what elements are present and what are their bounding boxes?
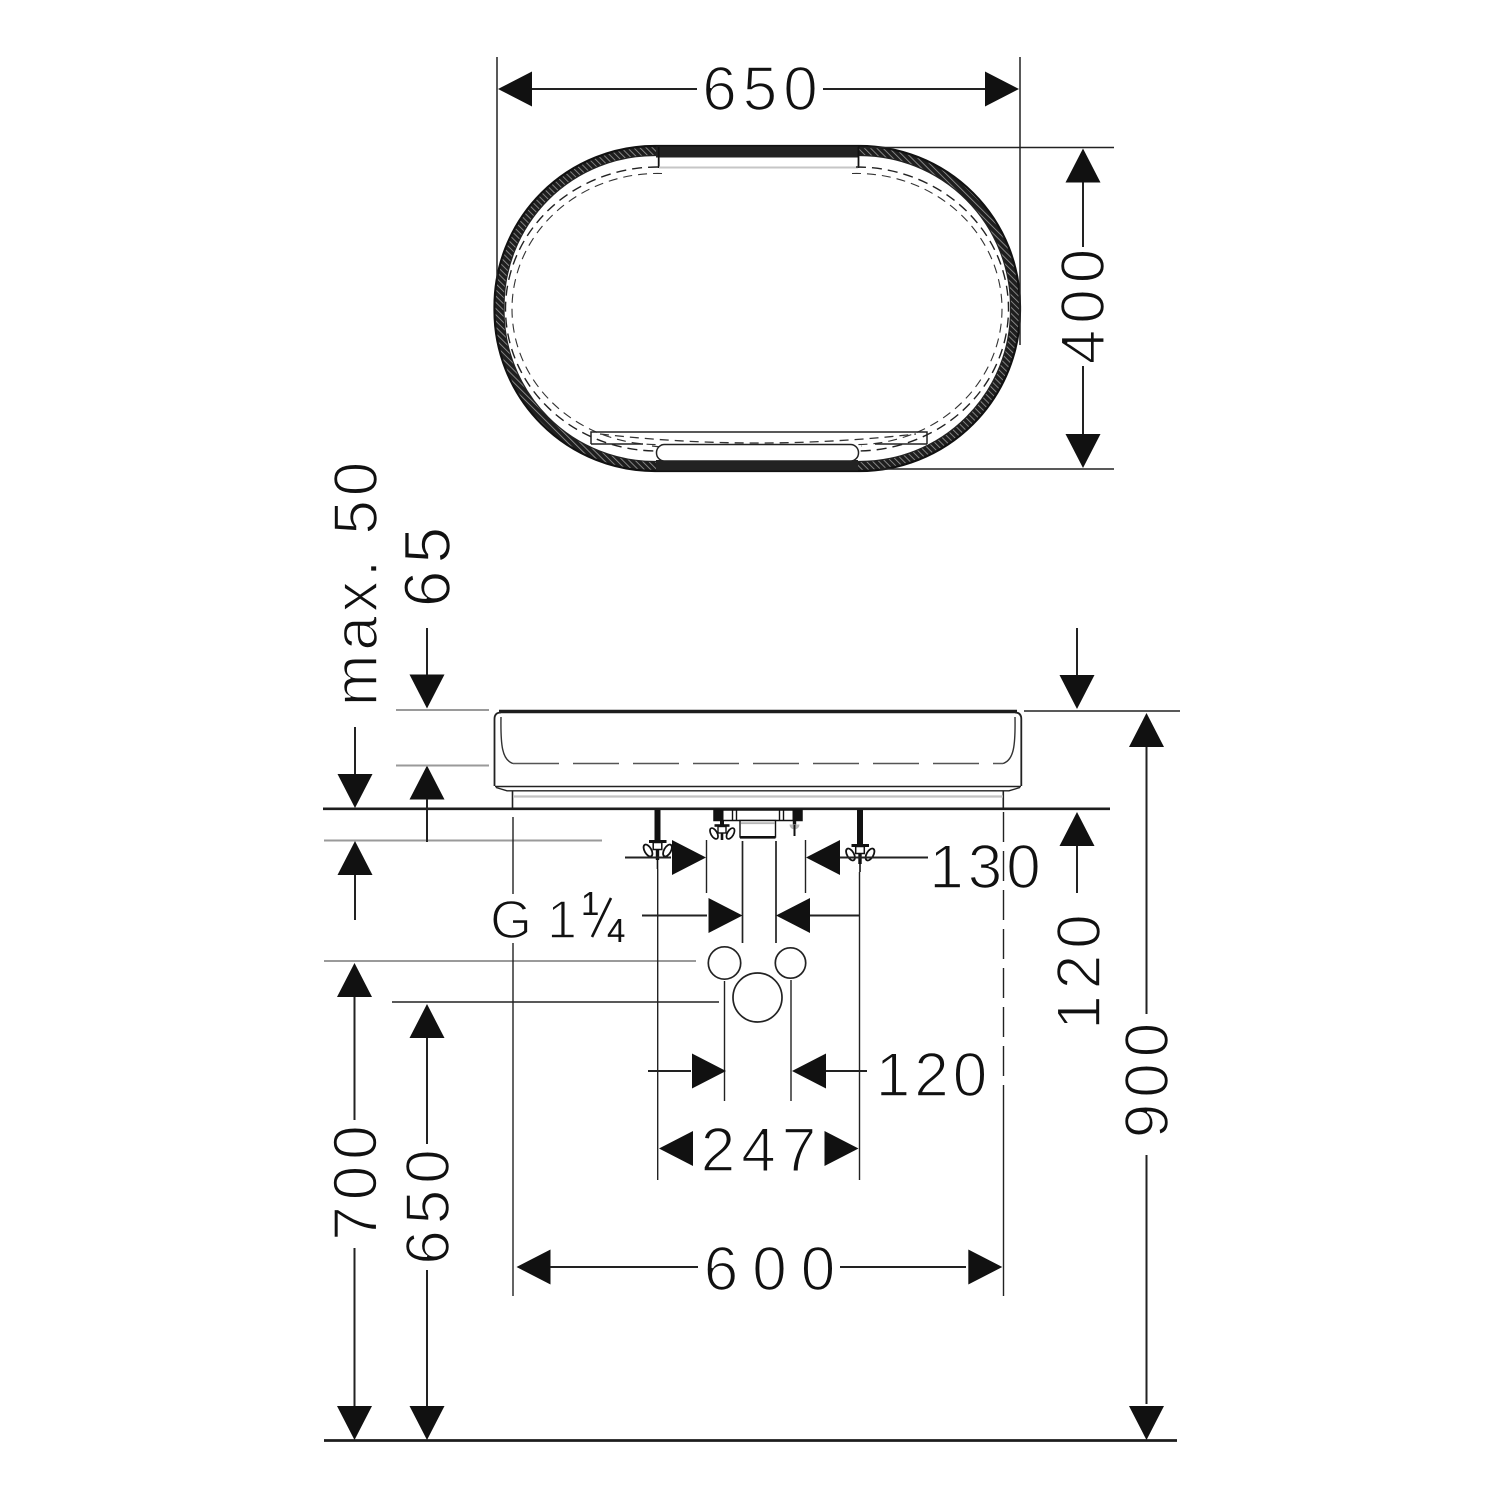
siphon circle right bbox=[775, 948, 805, 978]
dimension max. 50 bbox=[322, 458, 391, 920]
basin rim inner edge bbox=[504, 156, 1011, 462]
wall line bbox=[323, 807, 1110, 810]
basin rim hatched ring bbox=[495, 146, 1021, 471]
basin ledge dashed arc 2 bbox=[652, 446, 862, 452]
dimension 600 bbox=[513, 812, 1004, 1304]
pipe level gray line bbox=[324, 960, 696, 962]
dimension 120 right vertical bbox=[1045, 628, 1114, 1030]
svg-text:1: 1 bbox=[581, 885, 599, 922]
basin slab top bbox=[499, 710, 1017, 713]
basin bowl dashed line side bbox=[501, 717, 1015, 764]
drain pipe bbox=[743, 841, 777, 943]
svg-text:247: 247 bbox=[701, 1116, 822, 1185]
extension line bottom 400 bbox=[880, 468, 1114, 470]
svg-text:max. 50: max. 50 bbox=[322, 458, 391, 707]
drain level line bbox=[392, 1001, 719, 1003]
drain circle big bbox=[733, 973, 782, 1022]
svg-text:600: 600 bbox=[704, 1235, 849, 1304]
basin ledge dashed arc bbox=[600, 434, 916, 443]
flange pin right bbox=[790, 821, 800, 837]
basin slab left edge bbox=[495, 713, 502, 787]
svg-text:G 1: G 1 bbox=[490, 890, 577, 950]
left fixing bolt bbox=[642, 810, 674, 869]
basin bowl outer curve bbox=[506, 167, 1009, 451]
flange wing bolt left bbox=[708, 821, 736, 841]
svg-text:120: 120 bbox=[876, 1041, 991, 1110]
svg-text:650: 650 bbox=[394, 1143, 463, 1264]
siphon circle left bbox=[708, 947, 740, 979]
basin rim lip line top bbox=[659, 167, 858, 169]
basin bottom solid band bbox=[656, 460, 858, 471]
basin bowl inner curve bbox=[512, 173, 1002, 444]
wall offset gray line bbox=[324, 840, 602, 842]
dimension 900 bbox=[1113, 713, 1182, 1440]
dimension 650 top bbox=[498, 55, 1019, 124]
dimension 400 right bbox=[1049, 149, 1118, 469]
basin slab right edge bbox=[1015, 713, 1021, 787]
drain flange bar bbox=[714, 810, 802, 821]
extension line top 400 bbox=[860, 147, 1114, 149]
dimension 65 left bbox=[390, 520, 489, 842]
svg-text:700: 700 bbox=[322, 1119, 391, 1240]
svg-text:4: 4 bbox=[607, 912, 625, 949]
right fixing bolt bbox=[844, 810, 876, 872]
dimension 130 bbox=[625, 833, 1045, 902]
extension line left 650 bbox=[496, 57, 498, 279]
dimension 700 bbox=[322, 963, 391, 1440]
dimension G 1 1/4 bbox=[490, 885, 859, 950]
dimension 650 left bbox=[394, 1004, 463, 1440]
svg-text:400: 400 bbox=[1049, 243, 1118, 364]
basin outer edge bbox=[495, 146, 1021, 471]
floor line bbox=[324, 1439, 1177, 1442]
drain trap body bbox=[740, 821, 776, 838]
svg-text:65: 65 bbox=[390, 520, 464, 607]
svg-text:120: 120 bbox=[1045, 908, 1114, 1029]
extension line right 650 bbox=[1019, 57, 1021, 345]
svg-text:650: 650 bbox=[702, 55, 823, 124]
basin ledge line bbox=[591, 432, 927, 444]
dimension 120 bottom bbox=[648, 980, 991, 1110]
svg-text:130: 130 bbox=[929, 833, 1044, 902]
basin shelf capsule bbox=[657, 445, 859, 462]
basin slab bottom bbox=[495, 787, 1021, 791]
dimension 247 bbox=[658, 869, 860, 1185]
extension line slab top right bbox=[1024, 710, 1180, 712]
basin band tick marks bbox=[659, 147, 859, 168]
basin top solid band bbox=[656, 147, 858, 158]
svg-text:900: 900 bbox=[1113, 1017, 1182, 1138]
basin base strip bbox=[513, 792, 1004, 808]
